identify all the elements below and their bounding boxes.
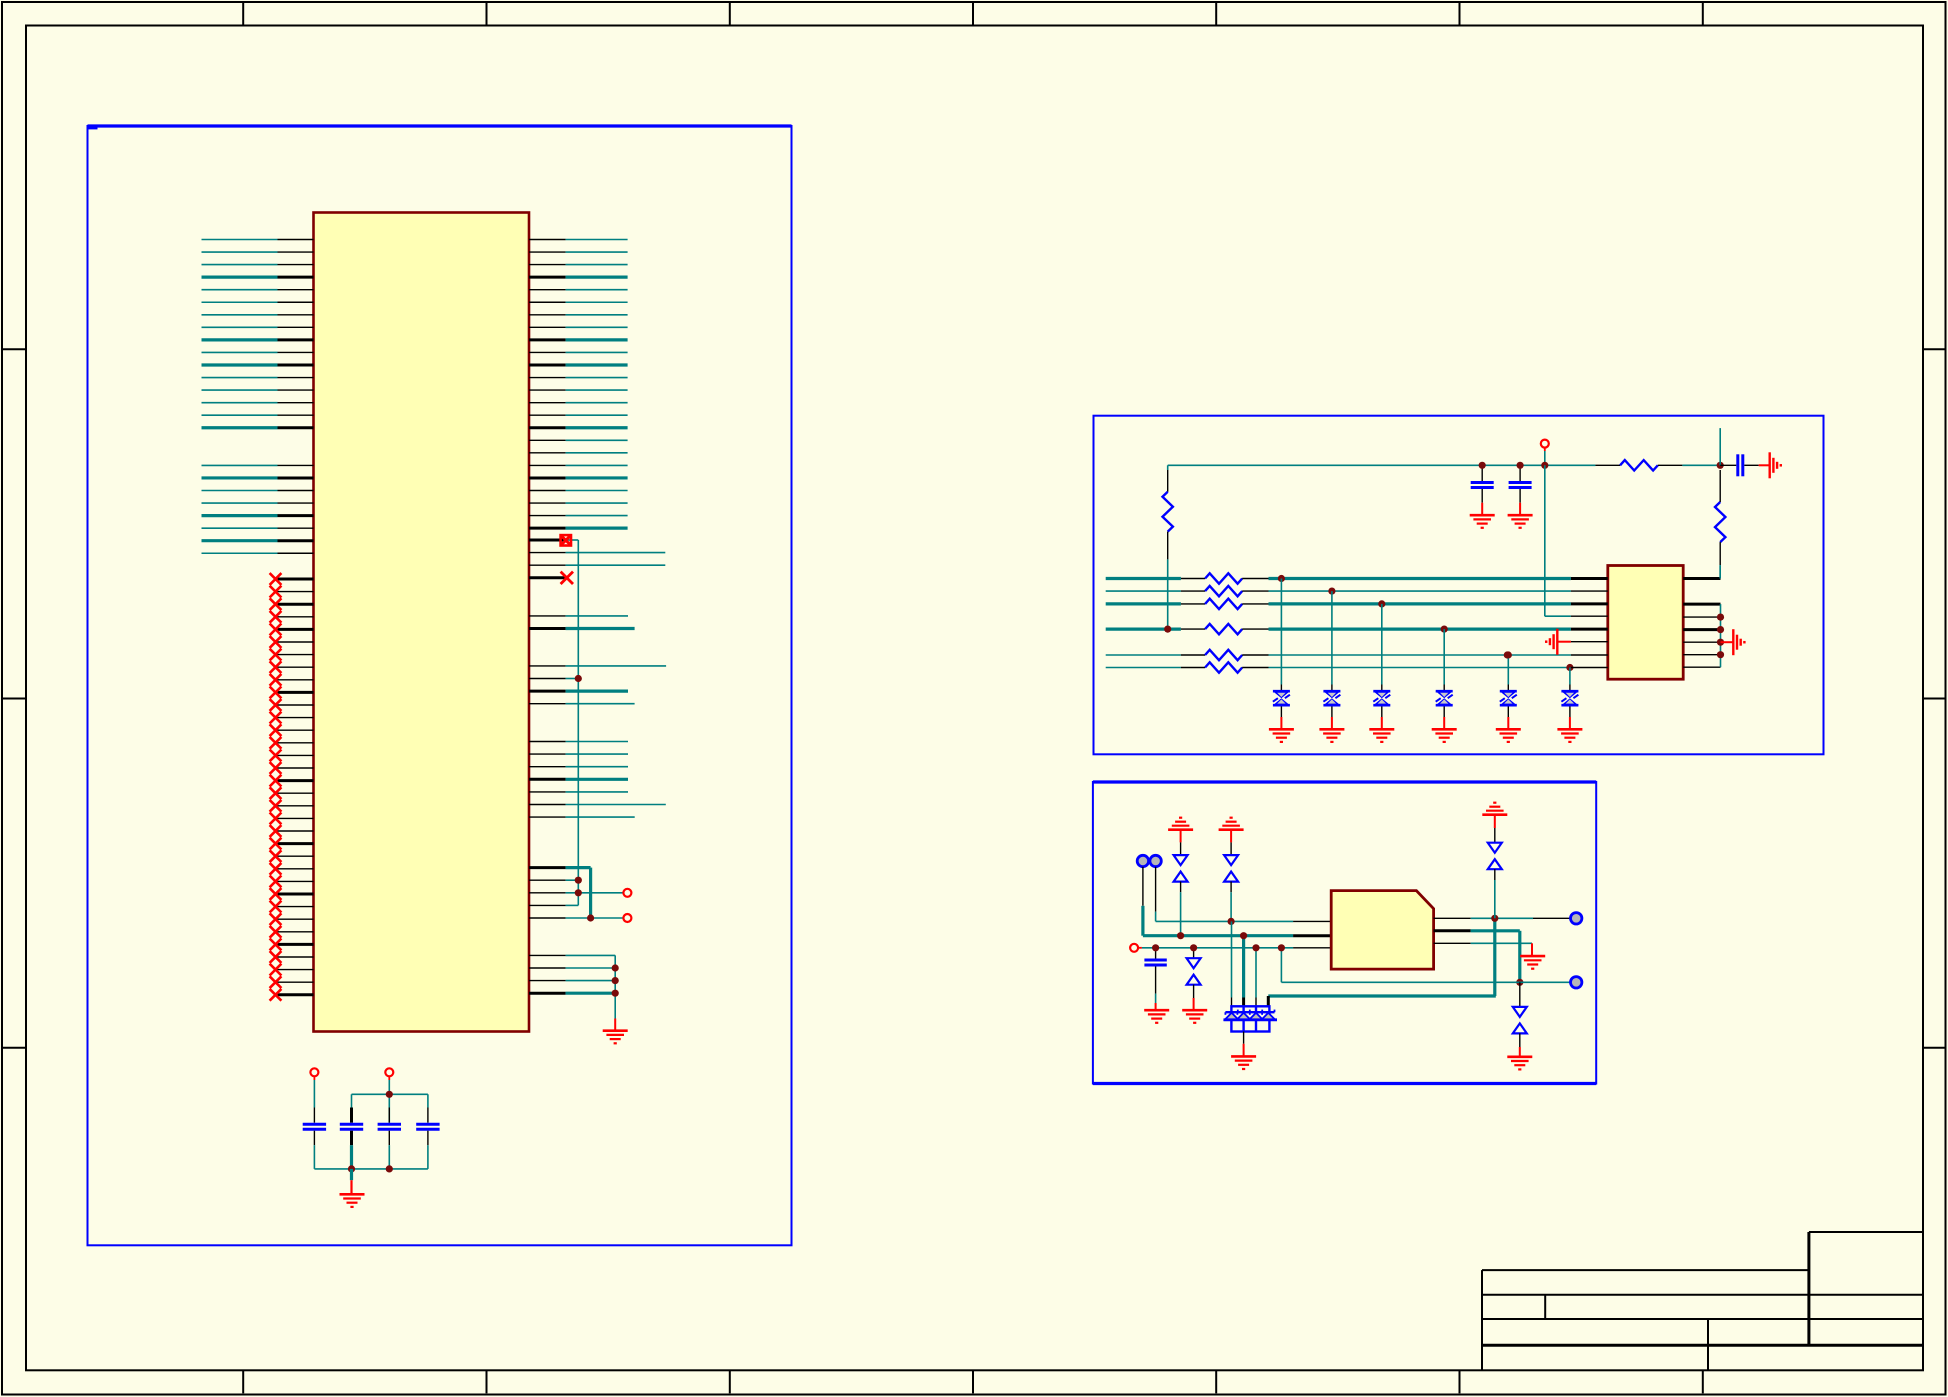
- row C wire: [1130, 944, 1293, 952]
- ground GND17: [1520, 955, 1545, 958]
- junction on stub B: [587, 914, 594, 921]
- junction p2 port2 row: [1516, 979, 1523, 986]
- ground GND4: [1508, 514, 1533, 517]
- junction on stub A at 880.2: [575, 877, 582, 884]
- wire TP2 down: [1155, 867, 1157, 922]
- junction gnd bus 968: [612, 964, 619, 971]
- ground GND2: [340, 1193, 365, 1196]
- input bus wires: [1106, 579, 1571, 668]
- ground GND16: [1231, 1055, 1256, 1058]
- port P2: [623, 914, 631, 922]
- wire VCC to U2: [1545, 465, 1571, 616]
- port P5: [1541, 440, 1549, 448]
- junction row B array: [1240, 932, 1247, 939]
- wire U3 p1 to port: [1471, 917, 1570, 919]
- U1 left pins group B: [278, 465, 314, 553]
- block outline (sheet region 1): [88, 126, 792, 1245]
- junction on stub A at 678.5: [575, 675, 582, 682]
- junction bottom rail at C3: [386, 1165, 393, 1172]
- junction bottom rail at C2: [348, 1165, 355, 1172]
- junction R8 node: [1717, 462, 1724, 469]
- supply rail wire: [1168, 464, 1596, 466]
- ground GND14: [1144, 1009, 1169, 1012]
- wire TP1 down: [1142, 867, 1144, 936]
- wire U2 pin1 to R9: [1719, 565, 1721, 578]
- junction row C C8: [1152, 944, 1159, 951]
- junction line5 in: [1504, 651, 1511, 658]
- junctions U2 right bus: [1717, 614, 1724, 659]
- junction row B D7: [1177, 932, 1184, 939]
- port P4: [385, 1068, 393, 1076]
- testpoint TP2: [1150, 855, 1161, 866]
- U1 left pins group A: [278, 240, 314, 428]
- junction gnd bus 980.6: [612, 977, 619, 984]
- wire to ground GND2: [350, 1169, 353, 1194]
- wire array pin1: [1231, 921, 1233, 1006]
- junction row C right: [1278, 944, 1285, 951]
- junction p1 net: [1491, 915, 1498, 922]
- IC U1 body: [314, 213, 530, 1032]
- U2 right ground bus wire: [1720, 604, 1722, 667]
- capacitor C8: [1144, 948, 1166, 1010]
- diode array D12: [1224, 1006, 1278, 1031]
- row A wire: [1156, 920, 1294, 922]
- U1 right pins group B: [529, 540, 566, 993]
- wires bus to TVS diodes: [1281, 579, 1570, 730]
- junction R1 to line4: [1164, 626, 1171, 633]
- wire port P4 down: [388, 1076, 390, 1108]
- wire U3 p3 to ground: [1471, 943, 1532, 956]
- top rail wire: [352, 1093, 428, 1095]
- ground GND3: [1470, 514, 1495, 517]
- port row 2 wire: [1281, 981, 1570, 983]
- diode pair D11 to ground: [1513, 982, 1527, 1057]
- U3 right pins: [1434, 918, 1471, 943]
- wire array pin2: [1242, 936, 1245, 1007]
- diode pair D10 with top ground: [1482, 803, 1507, 919]
- ground GND18: [1507, 1056, 1532, 1059]
- wire U3 p2 loop: [1471, 931, 1520, 983]
- wires from U1 right pins group A: [566, 240, 628, 529]
- capacitor C4: [416, 1094, 439, 1169]
- title block: [1482, 1232, 1923, 1370]
- diode pair D8 with top ground: [1219, 818, 1244, 922]
- U2 right pins: [1683, 579, 1720, 668]
- diode pair D7 with top ground: [1168, 818, 1193, 936]
- ground GND13 (right of U2): [1721, 629, 1745, 655]
- ground GND5 (sideways): [1768, 452, 1770, 478]
- grounds GND6-GND11: [1269, 729, 1583, 742]
- resistor R8: [1595, 460, 1720, 470]
- U3 body: [1331, 891, 1433, 970]
- wires to U1 left pins group B: [202, 465, 278, 553]
- port P7: [1571, 977, 1582, 988]
- wire port P5 to rail: [1544, 447, 1546, 465]
- junction on stub A at 892.8: [575, 889, 582, 896]
- wire array pin4 from net: [1268, 996, 1496, 1006]
- series resistors R2-R7: [1181, 573, 1269, 672]
- wire port P3 down: [313, 1076, 315, 1108]
- capacitor C3: [378, 1108, 401, 1169]
- diode pair D9: [1187, 948, 1201, 1010]
- resistor R9: [1715, 470, 1725, 579]
- ground GND12 (left of U2): [1546, 629, 1608, 655]
- port P3: [310, 1068, 318, 1076]
- junctions bus to TVS: [1278, 575, 1574, 671]
- port P1: [623, 889, 631, 897]
- ground GND15: [1182, 1009, 1207, 1012]
- wire net to row A junction: [1493, 918, 1496, 996]
- wire array to ground: [1243, 1032, 1245, 1057]
- TVS diodes D1-D6: [1273, 691, 1579, 705]
- junction rail C5: [1479, 462, 1486, 469]
- wire row C to port row: [1280, 948, 1282, 983]
- capacitor C6: [1509, 465, 1532, 515]
- U2 left pins: [1571, 579, 1608, 668]
- capacitor C5: [1471, 465, 1494, 515]
- no-connect X marks on U1 left pins: [270, 573, 282, 1001]
- bottom rail wire: [314, 1168, 428, 1170]
- junction row A D8: [1228, 918, 1235, 925]
- wire array pin3: [1255, 948, 1257, 1007]
- ground GND1: [603, 1029, 628, 1032]
- junction rail P5: [1541, 462, 1548, 469]
- wires to U1 left pins group A: [202, 240, 278, 428]
- wires from U1 right pins group B: [566, 553, 667, 994]
- junction row C array: [1252, 944, 1259, 951]
- capacitor C7: [1720, 454, 1770, 476]
- antenna stub wire: [1719, 428, 1721, 465]
- port P6: [1571, 913, 1582, 924]
- net stub vertical wire A: [577, 540, 579, 905]
- capacitor C2: [340, 1094, 363, 1169]
- block outline (sheet region 3): [1093, 782, 1596, 1084]
- capacitor C1: [303, 1108, 326, 1169]
- row B wire: [1143, 934, 1293, 937]
- no-connect X on U1 right pin: [561, 572, 573, 584]
- junction gnd bus 993.2: [612, 990, 619, 997]
- no-ERC marker on U1 pin: [561, 535, 579, 545]
- resistor R1: [1163, 465, 1173, 629]
- junction row C D9: [1190, 944, 1197, 951]
- net stub vertical wire B: [589, 868, 592, 918]
- block outline (sheet region 2): [1094, 416, 1824, 755]
- testpoint TP1: [1137, 855, 1148, 866]
- ground bus wire under U1 right: [614, 955, 616, 1030]
- U3 left pins: [1293, 921, 1331, 947]
- junction rail C6: [1517, 462, 1524, 469]
- junction top rail: [386, 1091, 393, 1098]
- U1 left pins group C (unconnected): [278, 579, 314, 995]
- IC U2 body: [1608, 566, 1683, 680]
- U1 right pins group A: [529, 240, 566, 529]
